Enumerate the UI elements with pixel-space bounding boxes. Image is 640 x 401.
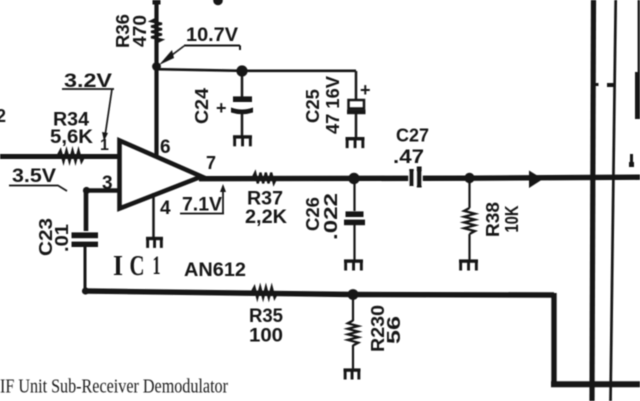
svg-text:5,6K: 5,6K — [50, 127, 93, 148]
resistor R35 — [252, 287, 278, 298]
svg-text:.022: .022 — [321, 193, 341, 240]
svg-text:R38: R38 — [483, 202, 503, 237]
node (10.7V test point) — [152, 62, 161, 71]
wire — [352, 345, 354, 369]
wire (bus corner down) — [551, 293, 556, 384]
ground (C25) — [346, 137, 365, 140]
svg-text:4: 4 — [160, 198, 171, 219]
ground (C24) — [233, 135, 252, 138]
wire — [84, 247, 87, 291]
resistor R38 — [464, 208, 475, 234]
svg-text:.47: .47 — [393, 147, 424, 168]
svg-text:100: 100 — [249, 325, 283, 347]
svg-text:C27: C27 — [396, 126, 429, 146]
wire (supply, vertical to pin 6) — [153, 0, 161, 5]
svg-text:I: I — [113, 251, 123, 282]
wire (tick) — [607, 83, 615, 87]
wire — [468, 234, 470, 260]
wire (bottom bus) — [85, 291, 554, 295]
capacitor C23 — [72, 232, 99, 238]
svg-text:C25: C25 — [303, 89, 323, 123]
wire (thin vertical, right) — [611, 0, 616, 401]
wire — [241, 71, 244, 97]
wire (pin 4) — [152, 193, 155, 237]
svg-text:7: 7 — [206, 153, 216, 173]
svg-text:C: C — [130, 251, 145, 282]
op-amp U1 (IC1 AN612) — [120, 141, 202, 209]
svg-text:+: + — [360, 80, 371, 100]
wire (pin 3) — [86, 188, 119, 231]
ground (R230) — [344, 368, 361, 371]
svg-text:.01: .01 — [52, 224, 72, 252]
wire (output) — [199, 177, 640, 179]
wire (right edge, top) — [638, 0, 640, 73]
resistor R34 — [58, 150, 85, 161]
svg-text:7.1V: 7.1V — [182, 195, 222, 216]
svg-text:6: 6 — [160, 137, 171, 158]
svg-text:1: 1 — [100, 137, 109, 154]
wire (bottom bus to right edge) — [551, 381, 640, 387]
capacitor C25 — [349, 100, 365, 109]
wire — [355, 71, 358, 101]
svg-text:2: 2 — [0, 106, 6, 126]
capacitor C24 — [233, 96, 252, 102]
svg-text:2,2K: 2,2K — [245, 207, 287, 228]
resistor R37 — [253, 173, 277, 184]
wire — [352, 295, 354, 321]
node (R230 junction) — [348, 289, 359, 300]
junction (top edge) — [213, 0, 223, 5]
resistor R36 — [151, 19, 162, 43]
svg-text:C24: C24 — [192, 88, 212, 124]
wire — [353, 178, 355, 211]
arrow (signal direction) — [529, 171, 543, 189]
svg-text:AN612: AN612 — [184, 260, 246, 281]
capacitor C26 — [346, 211, 364, 217]
node (R38 junction) — [464, 173, 474, 183]
ground (R38) — [459, 259, 478, 262]
svg-text:3: 3 — [102, 173, 113, 194]
wire (thick vertical bus, right) — [592, 0, 594, 401]
wire (top rail) — [157, 69, 357, 71]
wire — [353, 225, 355, 260]
capacitor C27 — [409, 172, 423, 185]
ground (C26) — [344, 259, 363, 262]
resistor R230 — [348, 321, 358, 346]
ground (pin 4) — [146, 237, 163, 240]
svg-text:3.5V: 3.5V — [12, 166, 56, 187]
svg-text:+: + — [216, 98, 227, 118]
svg-text:10K: 10K — [502, 206, 522, 233]
svg-text:C26: C26 — [303, 197, 323, 231]
wire (input) — [0, 154, 119, 159]
svg-text:47 16V: 47 16V — [323, 76, 343, 134]
node (C24 junction) — [236, 65, 247, 76]
svg-text:10.7V: 10.7V — [186, 25, 238, 46]
svg-text:1: 1 — [153, 251, 161, 280]
svg-text:56: 56 — [384, 316, 404, 344]
node (pin 3 corner) — [83, 187, 90, 194]
wire — [241, 113, 244, 136]
node (bus left corner) — [82, 287, 89, 294]
svg-text:IF Unit Sub-Receiver Demodulat: IF Unit Sub-Receiver Demodulator — [0, 377, 228, 398]
label (partial, right edge) — [630, 154, 633, 166]
wire (right edge, thick segment) — [635, 72, 640, 119]
node (C26 junction) — [348, 173, 359, 184]
svg-text:470: 470 — [130, 15, 150, 47]
wire — [468, 178, 470, 208]
wire — [355, 114, 358, 138]
